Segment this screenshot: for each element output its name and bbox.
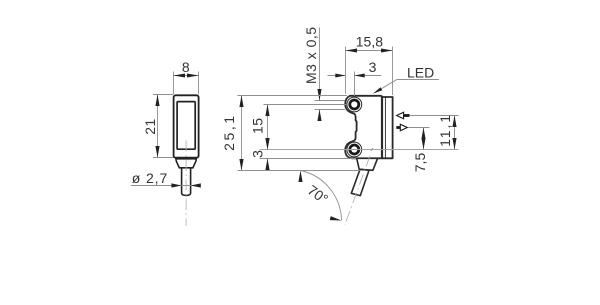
dimension 3 (top): right arrow — [355, 74, 365, 78]
dimension 3 (hole to bottom): arrow tails — [267, 141, 269, 167]
svg-text:25,1: 25,1 — [221, 116, 237, 151]
dimension 25,1: top arrow — [239, 96, 243, 108]
dimension 8: dimension line — [174, 75, 199, 77]
side view: cable boot — [357, 158, 378, 170]
dimension 3 (top): left arrow — [335, 74, 345, 78]
dimension 3: lower arrow — [265, 159, 269, 171]
dimension 7,5: bottom arrow — [421, 138, 425, 150]
dimension 15,8: left arrow — [346, 49, 358, 53]
dimension 21: dimension line — [157, 95, 159, 158]
dimension 7,5: top arrow — [421, 128, 425, 140]
dimension 3 (edge to hole axis): extension line — [354, 72, 356, 97]
dimension 15,8: right arrow — [381, 49, 393, 53]
dimension 8: right arrow — [187, 74, 199, 78]
side view: front plate thin line — [384, 97, 386, 158]
dimension 11,1: top arrow — [452, 116, 456, 128]
upper mounting hole: counterbore circle — [347, 97, 362, 112]
svg-text:11,1: 11,1 — [437, 115, 453, 147]
LED leader line — [381, 80, 439, 90]
M3 upper arrow — [317, 89, 321, 101]
lower hole centerline extension — [260, 149, 459, 151]
side view: front plate thick divider — [381, 97, 383, 158]
dimension 15,8: dimension line — [346, 50, 393, 52]
dimension 15,8: extension lines — [346, 47, 393, 96]
upper hole centerline extension — [264, 104, 347, 106]
cable axis centerline (70 deg) — [345, 156, 370, 225]
svg-text:15: 15 — [250, 118, 266, 134]
dimension 25,1: bottom arrow — [239, 159, 243, 171]
upper mounting hole: threaded bore — [350, 100, 359, 109]
emitter beam arrow (hollow, pointing left) — [397, 112, 404, 119]
top extension line for 25,1 — [238, 95, 348, 97]
dimension 25,1: dimension line — [241, 96, 243, 171]
dimension 15: bottom arrow — [265, 138, 269, 150]
svg-text:3: 3 — [250, 150, 266, 158]
dimension 15: top arrow — [265, 105, 269, 117]
sensor side view: body outline — [345, 96, 392, 159]
beam axis extension lines — [408, 116, 458, 128]
lower mounting hole: counterbore circle — [347, 142, 362, 157]
dimension 21: top arrow — [155, 95, 159, 107]
svg-text:M3 x 0,5: M3 x 0,5 — [303, 27, 319, 84]
70 degree arc: bottom arrow — [330, 216, 342, 220]
sensor front view: body outline — [174, 95, 199, 157]
dimension ø 2,7: right arrow — [191, 183, 201, 187]
side view: cable — [351, 169, 369, 195]
svg-text:21: 21 — [142, 119, 158, 135]
sensor front view: optical window — [177, 102, 195, 150]
svg-text:3: 3 — [369, 59, 377, 75]
M3 lower arrow — [317, 110, 321, 122]
M3 thread extension lines — [315, 101, 346, 110]
bottom extension line for 25,1 and 70 deg reference — [238, 170, 362, 172]
front view vertical centerline — [185, 141, 187, 227]
svg-text:LED: LED — [407, 64, 434, 80]
dimension 11,1: bottom arrow — [452, 138, 456, 150]
svg-text:ø 2,7: ø 2,7 — [132, 170, 168, 186]
70 degree angle arc — [301, 171, 342, 221]
lower hole center mark tick — [371, 148, 373, 151]
dimension 15: dimension line — [267, 105, 269, 150]
70 degree arc: top arrow — [298, 171, 302, 183]
svg-text:15,8: 15,8 — [356, 33, 383, 49]
dimension 3: upper arrow — [265, 138, 269, 150]
dimension 8: left arrow — [174, 74, 186, 78]
dimension 3 (top): dimension line tails — [328, 75, 382, 77]
svg-text:7,5: 7,5 — [412, 153, 428, 173]
sensor front view: cable gland — [176, 159, 196, 168]
dimension 8: extension lines — [174, 72, 199, 95]
body bottom extension line — [260, 158, 357, 160]
lower mounting hole: threaded bore — [350, 145, 359, 154]
dimension 7,5: dimension line — [423, 128, 425, 150]
dimension 21: extension lines — [153, 95, 173, 158]
dimension ø 2,7: leader line — [131, 185, 201, 187]
dimension 11,1: dimension line — [454, 116, 456, 150]
receiver beam arrow (hollow, pointing right) — [400, 124, 407, 131]
dimension 21: bottom arrow — [155, 146, 159, 158]
svg-text:8: 8 — [182, 59, 190, 75]
sensor front view: cable — [182, 168, 191, 196]
M3 dimension line segments — [319, 28, 321, 120]
LED leader arrowhead — [373, 87, 383, 94]
dimension ø 2,7: left arrow — [171, 183, 181, 187]
